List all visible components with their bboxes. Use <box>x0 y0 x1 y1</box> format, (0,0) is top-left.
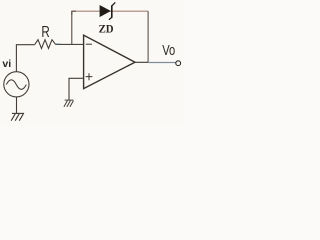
wire: feedback top horizontal <box>72 10 148 12</box>
wire: source bottom stem <box>16 97 18 113</box>
svg-text:ZD: ZD <box>99 24 114 36</box>
wire: op-amp output <box>135 61 148 63</box>
wire: output to terminal <box>148 62 176 64</box>
wire: input horizontal left segment <box>16 44 35 46</box>
svg-text:vi: vi <box>2 58 11 70</box>
output terminal node <box>176 61 181 66</box>
op-amp U1 <box>84 35 135 89</box>
resistor R <box>35 40 56 49</box>
wire: source top stem <box>15 45 17 72</box>
wire: non-inverting input to ground <box>69 78 84 100</box>
wire corner dark cap <box>72 11 76 15</box>
wire: resistor to op-amp inverting input <box>56 43 84 45</box>
svg-text:R: R <box>41 24 49 41</box>
ground (source) <box>11 113 24 120</box>
op-amp minus pin mark <box>86 43 92 45</box>
zener diode ZD <box>100 2 115 19</box>
ground (op-amp + input) <box>64 100 74 107</box>
wire: feedback tap vertical <box>71 11 73 44</box>
sine wave inside source <box>6 80 26 90</box>
wire: blue scan tint dash <box>56 43 61 45</box>
op-amp plus pin mark <box>86 73 93 80</box>
svg-text:Vo: Vo <box>162 42 175 59</box>
source Vi (AC) <box>4 72 29 97</box>
wire: feedback right vertical <box>147 11 149 62</box>
